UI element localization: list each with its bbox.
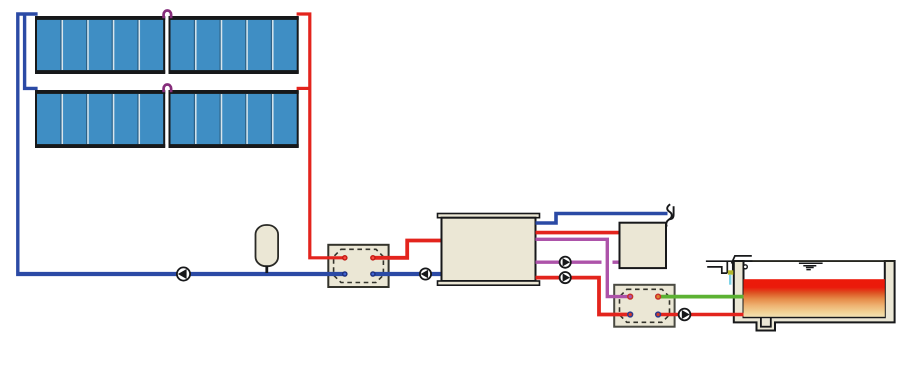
HX1 port cold in	[343, 272, 347, 276]
storage tank T1 body	[442, 218, 536, 281]
pipe: cold water mains blue top	[536, 214, 668, 224]
HX2 port red in	[628, 312, 633, 317]
pool skimmer inlet	[706, 256, 753, 285]
pump P3 on purple return	[560, 257, 571, 268]
pipe: red to control unit	[536, 231, 620, 235]
pipe: hot feed HX1 to storage tank	[373, 241, 442, 258]
pipe: purple return with crossing break	[536, 261, 620, 264]
mains break symbol	[666, 204, 673, 226]
pump P2 before storage tank	[420, 268, 431, 279]
sensor arch row 1	[164, 10, 172, 18]
pipe: red pool return	[658, 313, 743, 317]
solar collector row 1 right panel	[169, 17, 299, 74]
HX2 port green out	[656, 294, 661, 299]
HX2 port purple in	[628, 294, 633, 299]
HX1 port hot in	[343, 256, 347, 260]
pump P1 on cold line	[177, 267, 190, 280]
sensor arch row 2	[164, 85, 172, 93]
solar collector row 2 right panel	[169, 91, 299, 148]
pump P5 pool loop	[679, 309, 691, 321]
pipe: red to HX2	[536, 278, 631, 315]
pool water level symbol	[799, 263, 823, 269]
HX1 port hot out	[371, 256, 375, 260]
HX1 port cold out	[371, 272, 375, 276]
HX2 port red out	[656, 312, 661, 317]
pipe: green pool feed	[658, 295, 743, 299]
solar collector row 1 left panel	[35, 17, 165, 74]
pipe: main cold blue line bottom	[16, 272, 441, 276]
pipe: cold return blue riser left	[18, 14, 38, 272]
storage tank T1 top flange	[438, 214, 540, 218]
swimming pool basin	[734, 261, 895, 331]
pipe: purple flow to HX2	[536, 239, 631, 296]
pipe: hot branch from collector row 2	[297, 87, 310, 90]
pool water gradient	[744, 279, 885, 317]
storage tank T1 bottom flange	[438, 281, 540, 285]
expansion vessel EV1	[256, 225, 279, 273]
heat exchanger HX1 box	[328, 245, 388, 287]
pipe: hot red riser right of collectors	[297, 14, 345, 258]
pump P4 on red to HX2	[560, 272, 571, 283]
control unit CU1	[620, 223, 667, 268]
heat exchanger HX2 box	[614, 285, 674, 327]
solar collector row 2 left panel	[35, 91, 165, 148]
pool wall fitting ring	[743, 265, 747, 269]
pipe: cold branch to collector row 2	[25, 14, 38, 88]
